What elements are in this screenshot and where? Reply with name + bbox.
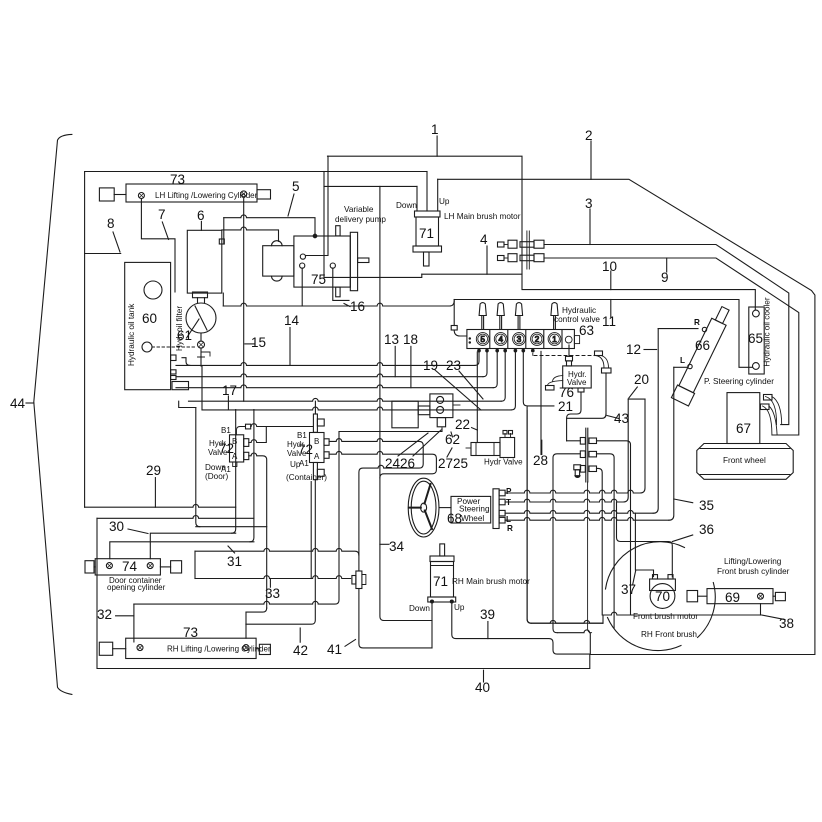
svg-text:Front wheel: Front wheel bbox=[723, 456, 766, 465]
svg-text:Down: Down bbox=[396, 201, 417, 210]
svg-text:Hydr Valve: Hydr Valve bbox=[484, 458, 523, 467]
svg-text:(Door): (Door) bbox=[205, 472, 228, 481]
svg-text:3: 3 bbox=[585, 196, 593, 211]
svg-text:Hydraulic oil tank: Hydraulic oil tank bbox=[127, 303, 136, 366]
svg-text:A1: A1 bbox=[299, 459, 309, 468]
svg-text:71: 71 bbox=[433, 574, 448, 589]
svg-text:Hydr.: Hydr. bbox=[209, 439, 228, 448]
svg-text:67: 67 bbox=[736, 421, 751, 436]
svg-text:75: 75 bbox=[311, 272, 326, 287]
svg-text:5: 5 bbox=[292, 179, 300, 194]
svg-text:5: 5 bbox=[480, 335, 485, 344]
svg-text:Up: Up bbox=[439, 197, 450, 206]
svg-text:A: A bbox=[232, 452, 238, 461]
svg-text:Front brush motor: Front brush motor bbox=[633, 612, 698, 621]
svg-text:74: 74 bbox=[122, 559, 138, 574]
svg-text:39: 39 bbox=[480, 607, 495, 622]
svg-text:9: 9 bbox=[661, 270, 669, 285]
svg-text:25: 25 bbox=[453, 456, 468, 471]
svg-text:73: 73 bbox=[183, 625, 198, 640]
svg-text:42: 42 bbox=[293, 643, 308, 658]
svg-text:Up: Up bbox=[454, 603, 465, 612]
svg-text:30: 30 bbox=[109, 519, 124, 534]
svg-text:control valve: control valve bbox=[554, 315, 600, 324]
svg-text:32: 32 bbox=[97, 607, 112, 622]
svg-text:4: 4 bbox=[480, 232, 488, 247]
svg-text:28: 28 bbox=[533, 453, 548, 468]
svg-text:L: L bbox=[680, 356, 685, 365]
svg-text:38: 38 bbox=[779, 616, 794, 631]
svg-text:LH Main brush motor: LH Main brush motor bbox=[444, 212, 521, 221]
svg-text:8: 8 bbox=[107, 216, 115, 231]
svg-text:60: 60 bbox=[142, 311, 157, 326]
svg-text:33: 33 bbox=[265, 586, 280, 601]
svg-text:P. Steering cylinder: P. Steering cylinder bbox=[704, 377, 774, 386]
svg-text:B1: B1 bbox=[221, 426, 231, 435]
svg-text:Hydraulic oil cooler: Hydraulic oil cooler bbox=[763, 297, 772, 366]
svg-text:Hydraulic: Hydraulic bbox=[562, 306, 596, 315]
svg-text:44: 44 bbox=[10, 396, 26, 411]
svg-text:73: 73 bbox=[170, 172, 185, 187]
svg-text:2: 2 bbox=[585, 128, 593, 143]
svg-text:62: 62 bbox=[445, 432, 460, 447]
svg-text:69: 69 bbox=[725, 590, 740, 605]
svg-text:delivery pump: delivery pump bbox=[335, 215, 386, 224]
svg-text:43: 43 bbox=[614, 411, 629, 426]
svg-text:6: 6 bbox=[197, 208, 205, 223]
svg-text:Hydr.oil filter: Hydr.oil filter bbox=[175, 306, 184, 351]
svg-text:4: 4 bbox=[498, 335, 503, 344]
svg-text:Front brush cylinder: Front brush cylinder bbox=[717, 567, 790, 576]
svg-text:65: 65 bbox=[748, 331, 763, 346]
svg-text:40: 40 bbox=[475, 680, 490, 695]
svg-text:7: 7 bbox=[158, 207, 166, 222]
svg-text:12: 12 bbox=[626, 342, 641, 357]
svg-text:LH Lifting /Lowering Cylinder: LH Lifting /Lowering Cylinder bbox=[155, 191, 258, 200]
svg-text:34: 34 bbox=[389, 539, 405, 554]
svg-text:21: 21 bbox=[558, 399, 573, 414]
svg-text:B: B bbox=[314, 437, 319, 446]
svg-text:3: 3 bbox=[517, 335, 522, 344]
svg-text:18: 18 bbox=[403, 332, 418, 347]
svg-text:15: 15 bbox=[251, 335, 266, 350]
svg-text:23: 23 bbox=[446, 358, 461, 373]
svg-text:37: 37 bbox=[621, 582, 636, 597]
svg-text:A: A bbox=[314, 452, 320, 461]
svg-text:T: T bbox=[506, 498, 511, 507]
svg-text:1: 1 bbox=[552, 335, 557, 344]
svg-text:11: 11 bbox=[602, 314, 616, 329]
svg-text:Wheel: Wheel bbox=[461, 514, 484, 523]
svg-text:(Container): (Container) bbox=[286, 473, 327, 482]
svg-text:20: 20 bbox=[634, 372, 649, 387]
svg-text:1: 1 bbox=[431, 122, 439, 137]
svg-text:Variable: Variable bbox=[344, 205, 374, 214]
svg-text:RH Main brush motor: RH Main brush motor bbox=[452, 577, 530, 586]
svg-text:66: 66 bbox=[695, 338, 710, 353]
svg-text:B: B bbox=[232, 437, 237, 446]
svg-text:Lifting/Lowering: Lifting/Lowering bbox=[724, 557, 782, 566]
svg-text:Hydr.: Hydr. bbox=[287, 440, 306, 449]
svg-text:63: 63 bbox=[579, 323, 594, 338]
svg-text:16: 16 bbox=[350, 299, 365, 314]
svg-text:14: 14 bbox=[284, 313, 300, 328]
svg-text:RH Front brush: RH Front brush bbox=[641, 630, 697, 639]
svg-text:17: 17 bbox=[222, 383, 237, 398]
svg-text:29: 29 bbox=[146, 463, 161, 478]
svg-text:27: 27 bbox=[438, 456, 453, 471]
svg-text:13: 13 bbox=[384, 332, 399, 347]
svg-text:R: R bbox=[694, 318, 700, 327]
svg-text:71: 71 bbox=[419, 226, 434, 241]
svg-text:P: P bbox=[506, 487, 512, 496]
svg-text:Steering: Steering bbox=[459, 505, 490, 514]
svg-text:Down: Down bbox=[409, 604, 430, 613]
svg-text:Valve: Valve bbox=[567, 378, 587, 387]
svg-text:22: 22 bbox=[455, 417, 470, 432]
svg-text:70: 70 bbox=[655, 589, 670, 604]
svg-text:41: 41 bbox=[327, 642, 342, 657]
svg-text:36: 36 bbox=[699, 522, 714, 537]
svg-text:35: 35 bbox=[699, 498, 714, 513]
svg-text:2: 2 bbox=[535, 335, 540, 344]
svg-text:RH Lifting /Lowering Cylinder: RH Lifting /Lowering Cylinder bbox=[167, 645, 271, 654]
svg-text:L: L bbox=[506, 515, 511, 524]
svg-text:Valve: Valve bbox=[287, 449, 307, 458]
svg-text:R: R bbox=[507, 524, 513, 533]
svg-text:10: 10 bbox=[602, 259, 617, 274]
svg-text:31: 31 bbox=[227, 554, 242, 569]
svg-text:19: 19 bbox=[423, 358, 438, 373]
svg-text:opening cylinder: opening cylinder bbox=[107, 583, 166, 592]
svg-text:26: 26 bbox=[400, 456, 415, 471]
svg-text:Valve: Valve bbox=[208, 448, 228, 457]
svg-text:B1: B1 bbox=[297, 431, 307, 440]
svg-text:24: 24 bbox=[385, 456, 401, 471]
svg-text:76: 76 bbox=[559, 385, 574, 400]
